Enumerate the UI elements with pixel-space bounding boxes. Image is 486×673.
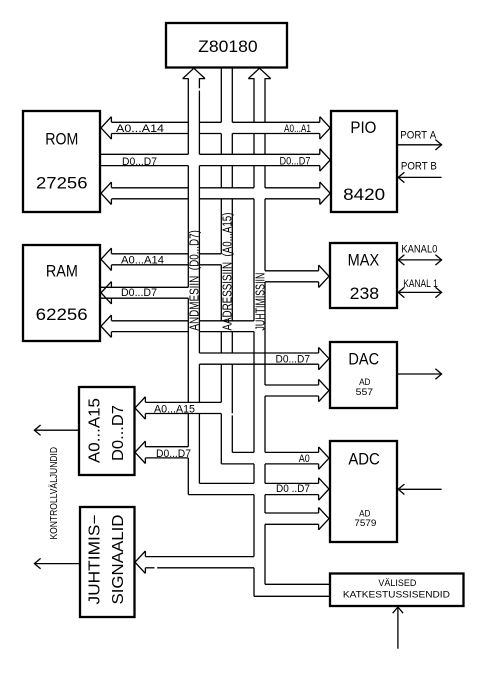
svg-text:27256: 27256 bbox=[36, 174, 88, 193]
external interrupt inputs block VALISED KATKESTUSSISENDID bbox=[330, 574, 464, 607]
PORT A wire bbox=[397, 140, 442, 150]
CPU block U1 Z80180 bbox=[166, 23, 287, 68]
DAC block U6 AD557 bbox=[330, 342, 397, 408]
data bus row ROM-PIO shaft bbox=[100, 154, 320, 165]
svg-text:D0...D7: D0...D7 bbox=[121, 287, 157, 299]
RAM data arrowhead bbox=[101, 282, 111, 304]
svg-text:AADRESSISIIN (A0...A15): AADRESSISIIN (A0...A15) bbox=[220, 213, 235, 331]
svg-text:DAC: DAC bbox=[348, 350, 379, 369]
label D0...D7 ROM side bbox=[122, 156, 157, 168]
RAM block U3 62256 bbox=[23, 245, 100, 341]
KANAL1 wire bbox=[397, 287, 442, 297]
svg-text:JUHTIMIS−: JUHTIMIS− bbox=[86, 515, 103, 605]
JUHTIMIS output wire bbox=[34, 558, 80, 568]
KANAL0 wire bbox=[397, 255, 442, 265]
control bus row DAC shaft bbox=[265, 385, 319, 396]
svg-text:KANAL0: KANAL0 bbox=[401, 243, 437, 255]
svg-text:D0...D7: D0...D7 bbox=[110, 405, 127, 461]
svg-text:7579: 7579 bbox=[354, 518, 376, 529]
address A0 row ADC shaft bbox=[221, 452, 318, 464]
data row arrowhead into PIO bbox=[320, 149, 330, 171]
ADC A0 arrowhead bbox=[319, 447, 329, 469]
svg-text:KATKESTUSSISENDID: KATKESTUSSISENDID bbox=[343, 590, 451, 600]
svg-text:238: 238 bbox=[350, 284, 380, 303]
label A0...A15 buffer side bbox=[154, 403, 195, 415]
svg-text:D0...D7: D0...D7 bbox=[156, 448, 191, 460]
data bus row RAM shaft bbox=[100, 287, 188, 298]
svg-text:D0...D7: D0...D7 bbox=[276, 353, 311, 365]
JUHTIMIS box arrowhead bbox=[135, 551, 145, 573]
control row arrowhead into ROM bbox=[101, 182, 111, 204]
svg-text:ANDMESIIN (D0...D7): ANDMESIIN (D0...D7) bbox=[187, 230, 202, 331]
DAC control arrowhead bbox=[319, 379, 329, 401]
label KANAL0 bbox=[401, 243, 437, 255]
svg-text:A0...A15: A0...A15 bbox=[86, 398, 103, 463]
RAM address arrowhead bbox=[101, 248, 111, 270]
buffer KONTROLLVALJUNDID output wire bbox=[34, 425, 79, 435]
svg-text:MAX: MAX bbox=[348, 250, 380, 269]
ADC control arrowhead bbox=[319, 507, 329, 529]
svg-text:PORT A: PORT A bbox=[400, 129, 437, 141]
svg-text:Z80180: Z80180 bbox=[198, 37, 258, 56]
label PORT A bbox=[400, 129, 437, 141]
label A0...A14 RAM side bbox=[121, 255, 164, 267]
DAC data arrowhead bbox=[319, 347, 329, 369]
control bus row RAM shaft bbox=[112, 321, 255, 332]
label D0...D7 PIO side bbox=[280, 155, 311, 167]
label D0...D7 RAM side bbox=[121, 287, 157, 299]
address bus row RAM shaft bbox=[112, 254, 222, 265]
svg-text:ADC: ADC bbox=[348, 449, 380, 468]
label A0...A14 ROM side bbox=[116, 123, 164, 135]
svg-text:ROM: ROM bbox=[45, 129, 78, 148]
label KONTROLLVALJUNDID bbox=[49, 447, 60, 540]
control bus JUHTIMISSIIN vertical shaft bbox=[254, 78, 265, 596]
control bus row ROM-PIO shaft bbox=[112, 188, 320, 199]
label A0 ADC side bbox=[299, 453, 310, 465]
data bus label ANDMESIIN (D0...D7) bbox=[187, 230, 202, 331]
svg-text:62256: 62256 bbox=[36, 305, 88, 324]
label KANAL1 bbox=[403, 278, 438, 290]
control bus row MAX shaft bbox=[265, 271, 319, 282]
svg-text:D0...D7: D0...D7 bbox=[122, 156, 157, 168]
wire to VALISED box lower bbox=[254, 595, 330, 597]
svg-text:557: 557 bbox=[356, 387, 374, 398]
data bus ANDMESIIN (D0...D7) vertical shaft bbox=[188, 78, 199, 494]
address/data buffer block A0...A15 D0...D7 bbox=[79, 387, 135, 475]
data bus row ADC shaft bbox=[188, 483, 318, 494]
control row arrowhead into PIO bbox=[320, 182, 330, 204]
svg-text:A0...A15: A0...A15 bbox=[154, 403, 195, 415]
address row arrowhead into ROM bbox=[101, 117, 111, 139]
address bus row buffer-box shaft bbox=[145, 402, 221, 413]
wire to VALISED box upper bbox=[265, 583, 330, 585]
PIO block U4 8420 bbox=[331, 111, 397, 212]
address bus row ROM-PIO shaft bbox=[112, 122, 320, 133]
label PORT B bbox=[401, 160, 437, 172]
control signals block JUHTIMIS-SIGNAALID bbox=[80, 507, 135, 617]
label D0...D7 buffer side bbox=[156, 448, 191, 460]
label D0 ..D7 ADC side bbox=[276, 483, 310, 495]
PORT B wire bbox=[397, 172, 442, 182]
svg-text:D0...D7: D0...D7 bbox=[280, 155, 311, 167]
ADC block U7 AD7579 bbox=[330, 441, 397, 542]
address row arrowhead into PIO bbox=[320, 117, 330, 139]
buffer address arrowhead bbox=[135, 397, 145, 419]
svg-text:A0...A14: A0...A14 bbox=[121, 255, 164, 267]
RAM control arrowhead bbox=[101, 315, 111, 337]
svg-text:D0 ..D7: D0 ..D7 bbox=[276, 483, 310, 495]
data bus row DAC shaft bbox=[199, 353, 318, 364]
label D0...D7 DAC side bbox=[276, 353, 311, 365]
svg-text:RAM: RAM bbox=[46, 262, 78, 281]
ADC input wire bbox=[397, 484, 442, 494]
svg-text:KANAL 1: KANAL 1 bbox=[403, 278, 438, 290]
svg-text:VÄLISED: VÄLISED bbox=[378, 578, 416, 588]
label A0...A1 PIO side bbox=[284, 123, 311, 135]
control bus row ADC shaft bbox=[265, 513, 319, 524]
svg-text:SIGNAALID: SIGNAALID bbox=[110, 515, 127, 605]
control bus arrowhead into CPU bbox=[248, 68, 270, 78]
address bus label AADRESSISIIN (A0...A15) bbox=[220, 213, 235, 331]
svg-text:A0...A14: A0...A14 bbox=[116, 123, 164, 135]
MAX bus arrowhead bbox=[319, 265, 329, 287]
data bus arrowhead into CPU bbox=[183, 68, 205, 78]
MAX block U5 238 bbox=[330, 243, 397, 308]
ROM block U2 27256 bbox=[23, 111, 100, 212]
svg-text:A0...A1: A0...A1 bbox=[284, 123, 311, 135]
VALISED interrupt input wire bbox=[393, 607, 403, 649]
buffer data arrowhead bbox=[135, 441, 145, 463]
ADC data arrowhead bbox=[319, 478, 329, 500]
svg-text:A0: A0 bbox=[299, 453, 310, 465]
svg-text:PORT B: PORT B bbox=[401, 160, 437, 172]
svg-text:KONTROLLVÄLJUNDID: KONTROLLVÄLJUNDID bbox=[49, 447, 60, 540]
control bus row JUHTIMIS box shaft bbox=[145, 557, 254, 568]
control bus label JUHTIMISSIIN bbox=[252, 273, 267, 331]
DAC output wire bbox=[397, 369, 442, 379]
svg-text:8420: 8420 bbox=[343, 185, 385, 204]
address bus AADRESSISIIN (A0...A15) vertical shaft bbox=[221, 68, 232, 464]
svg-text:PIO: PIO bbox=[350, 118, 376, 137]
data bus row buffer-box shaft bbox=[145, 447, 188, 458]
